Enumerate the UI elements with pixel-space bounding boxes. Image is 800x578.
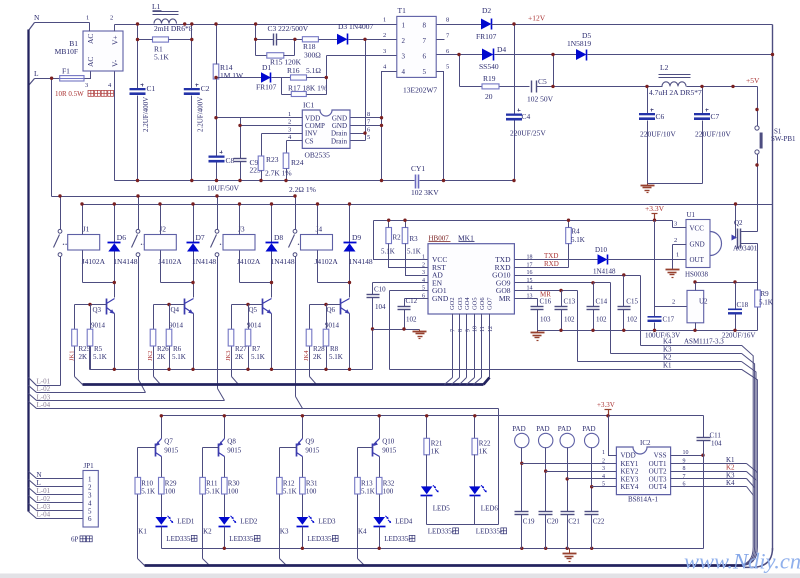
- svg-text:D6: D6: [117, 233, 126, 242]
- svg-text:L2: L2: [660, 63, 669, 72]
- svg-text:1: 1: [402, 22, 406, 30]
- svg-text:+3.3V: +3.3V: [645, 204, 665, 213]
- svg-text:R31: R31: [306, 480, 318, 488]
- svg-text:R2: R2: [393, 234, 402, 242]
- svg-text:3: 3: [674, 221, 677, 228]
- svg-text:+3.3V: +3.3V: [597, 401, 615, 409]
- svg-text:5.1K: 5.1K: [154, 53, 169, 62]
- svg-text:2: 2: [88, 484, 92, 492]
- svg-text:JP1: JP1: [84, 462, 95, 470]
- svg-text:6P: 6P: [71, 536, 79, 544]
- svg-text:1N4148: 1N4148: [192, 257, 216, 266]
- svg-text:7: 7: [423, 37, 427, 45]
- svg-text:J4: J4: [316, 225, 323, 234]
- svg-text:12: 12: [488, 326, 494, 332]
- svg-text:K2: K2: [663, 354, 672, 362]
- svg-text:R32: R32: [383, 480, 395, 488]
- svg-text:MB10F: MB10F: [55, 47, 78, 56]
- svg-text:OB2535: OB2535: [305, 151, 331, 160]
- svg-text:IC2: IC2: [640, 439, 651, 447]
- svg-text:MR: MR: [499, 294, 511, 303]
- svg-text:D1: D1: [262, 63, 271, 72]
- svg-text:C6: C6: [656, 112, 665, 121]
- svg-text:2: 2: [288, 119, 291, 126]
- svg-text:Q5: Q5: [249, 306, 258, 314]
- svg-text:J4102A: J4102A: [158, 257, 182, 266]
- svg-text:2: 2: [110, 15, 113, 22]
- svg-text:KEY4: KEY4: [621, 483, 639, 491]
- svg-text:5.1K: 5.1K: [329, 353, 343, 361]
- svg-text:10: 10: [473, 326, 479, 332]
- svg-text:GO6: GO6: [479, 297, 486, 310]
- svg-text:K2: K2: [726, 464, 735, 472]
- svg-text:R5: R5: [94, 345, 103, 353]
- svg-text:AC: AC: [86, 57, 95, 67]
- svg-text:5.1K: 5.1K: [206, 488, 220, 496]
- svg-text:Q9: Q9: [305, 438, 314, 446]
- svg-text:www.Ndiy.cn: www.Ndiy.cn: [684, 549, 800, 574]
- svg-text:LED335-: LED335-: [428, 528, 455, 536]
- svg-text:LED1: LED1: [177, 518, 195, 526]
- svg-text:C18: C18: [737, 301, 749, 309]
- svg-text:F1: F1: [62, 67, 70, 76]
- svg-text:K1: K1: [726, 456, 735, 464]
- svg-text:V-: V-: [111, 59, 120, 67]
- svg-text:VCC: VCC: [690, 225, 705, 233]
- svg-text:5.1K: 5.1K: [759, 299, 773, 307]
- svg-text:L: L: [34, 69, 39, 78]
- svg-text:4: 4: [402, 68, 406, 76]
- svg-text:R10: R10: [141, 480, 153, 488]
- svg-text:1N4148: 1N4148: [271, 257, 295, 266]
- svg-text:1: 1: [86, 15, 89, 22]
- svg-text:8: 8: [367, 111, 370, 118]
- svg-text:2K: 2K: [157, 353, 166, 361]
- svg-text:J4102A: J4102A: [82, 257, 106, 266]
- svg-text:Q10: Q10: [382, 438, 395, 446]
- svg-text:C5: C5: [538, 77, 547, 86]
- svg-text:R16: R16: [287, 66, 300, 75]
- svg-text:+12V: +12V: [528, 14, 546, 23]
- svg-text:SS540: SS540: [479, 62, 499, 71]
- svg-text:LED335-: LED335-: [384, 535, 411, 543]
- svg-text:FR107: FR107: [256, 83, 277, 92]
- svg-text:102: 102: [564, 316, 575, 324]
- svg-text:JK3: JK3: [225, 351, 232, 361]
- svg-text:ASM1117-3.3: ASM1117-3.3: [684, 338, 724, 346]
- svg-text:L1: L1: [152, 2, 161, 11]
- svg-text:C2: C2: [201, 84, 210, 93]
- svg-text:10UF/50V: 10UF/50V: [207, 184, 240, 193]
- svg-text:N: N: [34, 13, 40, 22]
- svg-text:BS814A-1: BS814A-1: [628, 496, 658, 504]
- svg-text:100UF/6.3V: 100UF/6.3V: [645, 332, 680, 340]
- svg-text:5.1K: 5.1K: [571, 236, 585, 244]
- svg-text:102: 102: [406, 316, 417, 324]
- svg-text:GO4: GO4: [464, 297, 471, 310]
- svg-text:2mH DR6*8: 2mH DR6*8: [154, 24, 193, 33]
- svg-text:5.1K: 5.1K: [251, 353, 265, 361]
- svg-text:3: 3: [288, 126, 291, 133]
- svg-text:Q7: Q7: [164, 438, 173, 446]
- svg-text:KEY3: KEY3: [621, 475, 639, 483]
- svg-text:2K: 2K: [79, 353, 88, 361]
- svg-text:R23: R23: [266, 155, 279, 164]
- svg-text:C8: C8: [226, 156, 235, 165]
- svg-text:C19: C19: [523, 518, 535, 526]
- svg-text:1N4148: 1N4148: [349, 257, 373, 266]
- svg-text:R17 18K 1%: R17 18K 1%: [288, 84, 327, 93]
- svg-text:N: N: [37, 471, 42, 479]
- svg-text:3: 3: [402, 53, 406, 61]
- svg-text:RXD: RXD: [544, 260, 559, 268]
- svg-text:L-03: L-03: [37, 503, 51, 511]
- svg-text:Q3: Q3: [93, 306, 102, 314]
- svg-text:SW-PB1: SW-PB1: [771, 135, 796, 143]
- svg-text:L-02: L-02: [37, 495, 51, 503]
- svg-text:5: 5: [423, 68, 427, 76]
- svg-text:5.1Ω: 5.1Ω: [306, 66, 321, 75]
- svg-text:1: 1: [602, 450, 605, 456]
- svg-text:IC1: IC1: [303, 101, 315, 110]
- svg-text:R13: R13: [361, 480, 373, 488]
- svg-text:9014: 9014: [325, 322, 340, 330]
- svg-text:R6: R6: [173, 345, 182, 353]
- svg-text:OUT3: OUT3: [649, 475, 667, 483]
- svg-text:FR107: FR107: [476, 32, 497, 41]
- svg-text:5: 5: [367, 134, 370, 141]
- svg-text:LED335-: LED335-: [476, 528, 503, 536]
- svg-text:CS: CS: [305, 137, 314, 145]
- svg-text:C14: C14: [596, 298, 608, 306]
- svg-text:R26: R26: [157, 345, 169, 353]
- svg-text:VSS: VSS: [654, 452, 667, 460]
- svg-text:C15: C15: [626, 298, 638, 306]
- svg-text:5.1K: 5.1K: [361, 488, 375, 496]
- svg-text:5: 5: [446, 64, 449, 71]
- svg-text:5.1K: 5.1K: [93, 353, 107, 361]
- svg-text:Q6: Q6: [327, 306, 336, 314]
- svg-text:9014: 9014: [91, 322, 106, 330]
- svg-text:CY1: CY1: [411, 164, 425, 173]
- svg-text:1: 1: [383, 17, 386, 24]
- svg-text:D2: D2: [482, 6, 491, 15]
- svg-text:R11: R11: [206, 480, 218, 488]
- svg-text:C3 222/500V: C3 222/500V: [268, 24, 309, 33]
- svg-text:1K: 1K: [479, 448, 488, 456]
- svg-text:Q4: Q4: [171, 306, 180, 314]
- svg-text:GND: GND: [432, 294, 449, 303]
- svg-text:100: 100: [165, 488, 176, 496]
- svg-text:13E202W7: 13E202W7: [403, 86, 437, 95]
- svg-text:220UF/25V: 220UF/25V: [510, 129, 546, 138]
- svg-text:JK4: JK4: [303, 350, 310, 361]
- svg-text:R21: R21: [431, 440, 443, 448]
- svg-text:K4: K4: [726, 479, 735, 487]
- svg-text:2K: 2K: [313, 353, 322, 361]
- svg-text:20: 20: [485, 92, 493, 101]
- svg-text:3: 3: [85, 82, 88, 89]
- svg-text:K3: K3: [726, 471, 735, 479]
- svg-text:VDD: VDD: [621, 452, 636, 460]
- svg-text:C12: C12: [406, 297, 418, 305]
- svg-text:3: 3: [422, 270, 425, 276]
- svg-text:R4: R4: [572, 228, 581, 236]
- svg-text:1: 1: [88, 476, 92, 484]
- svg-text:K3: K3: [663, 346, 672, 354]
- svg-text:LED5: LED5: [433, 505, 451, 513]
- svg-text:R8: R8: [330, 345, 339, 353]
- svg-text:R29: R29: [165, 480, 177, 488]
- svg-text:K1: K1: [138, 528, 147, 536]
- svg-text:5.1K: 5.1K: [172, 353, 186, 361]
- svg-text:1N5819: 1N5819: [567, 39, 591, 48]
- svg-text:OUT1: OUT1: [649, 460, 667, 468]
- svg-text:103: 103: [540, 316, 551, 324]
- svg-text:2: 2: [674, 237, 677, 244]
- svg-text:J4102A: J4102A: [237, 257, 261, 266]
- svg-text:+5V: +5V: [746, 76, 760, 85]
- svg-text:LED4: LED4: [395, 518, 413, 526]
- svg-text:OUT4: OUT4: [649, 483, 667, 491]
- svg-text:2.2UF/400V: 2.2UF/400V: [197, 97, 205, 132]
- svg-text:104: 104: [375, 303, 386, 311]
- svg-text:JK2: JK2: [147, 351, 154, 361]
- svg-text:K2: K2: [203, 528, 212, 536]
- svg-text:1: 1: [676, 252, 679, 259]
- svg-text:K4: K4: [358, 528, 367, 536]
- svg-text:5: 5: [602, 482, 605, 488]
- svg-text:7: 7: [451, 329, 457, 332]
- svg-text:3: 3: [602, 466, 605, 472]
- svg-text:8: 8: [423, 22, 427, 30]
- svg-text:K3: K3: [280, 528, 289, 536]
- svg-text:3: 3: [383, 48, 386, 55]
- svg-text:2: 2: [422, 262, 425, 268]
- svg-text:102 3KV: 102 3KV: [411, 188, 439, 197]
- svg-text:L-04: L-04: [37, 511, 51, 519]
- svg-text:R19: R19: [483, 74, 496, 83]
- svg-text:OUT2: OUT2: [649, 468, 667, 476]
- svg-text:OUT: OUT: [690, 256, 705, 264]
- svg-text:C4: C4: [522, 112, 531, 121]
- svg-text:GND: GND: [690, 241, 705, 249]
- svg-text:C7: C7: [711, 112, 720, 121]
- svg-text:KEY1: KEY1: [621, 460, 639, 468]
- svg-text:5.1K: 5.1K: [141, 488, 155, 496]
- svg-text:300Ω: 300Ω: [304, 51, 321, 60]
- svg-text:10R 0.5W: 10R 0.5W: [55, 90, 84, 98]
- svg-text:LED335-: LED335-: [166, 535, 193, 543]
- svg-text:220UF/10V: 220UF/10V: [695, 130, 731, 139]
- svg-text:2: 2: [383, 32, 386, 39]
- svg-text:D4: D4: [497, 45, 506, 54]
- svg-text:R7: R7: [252, 345, 261, 353]
- svg-text:L-02: L-02: [37, 385, 51, 393]
- svg-text:8: 8: [446, 17, 449, 24]
- svg-text:2.7K 1%: 2.7K 1%: [265, 169, 292, 178]
- svg-text:R28: R28: [313, 345, 325, 353]
- svg-text:5: 5: [88, 507, 92, 515]
- svg-text:C10: C10: [374, 286, 386, 294]
- svg-text:T1: T1: [398, 6, 407, 15]
- svg-text:K1: K1: [663, 362, 672, 370]
- svg-text:R30: R30: [228, 480, 240, 488]
- svg-text:C13: C13: [564, 298, 576, 306]
- svg-text:1N4148: 1N4148: [113, 257, 137, 266]
- svg-text:4: 4: [602, 474, 605, 480]
- svg-text:J4102A: J4102A: [315, 257, 339, 266]
- svg-text:R27: R27: [235, 345, 247, 353]
- svg-text:1M 1W: 1M 1W: [220, 71, 244, 80]
- svg-text:R25: R25: [79, 345, 91, 353]
- svg-text:LED6: LED6: [481, 505, 499, 513]
- svg-text:9015: 9015: [305, 447, 320, 455]
- svg-text:220UF/10V: 220UF/10V: [640, 130, 676, 139]
- svg-text:AC: AC: [86, 34, 95, 44]
- svg-text:PAD: PAD: [582, 425, 595, 433]
- svg-text:102: 102: [627, 316, 638, 324]
- svg-text:L-01: L-01: [37, 487, 51, 495]
- svg-text:100: 100: [228, 488, 239, 496]
- svg-text:1: 1: [422, 255, 425, 261]
- svg-text:L-03: L-03: [37, 393, 51, 401]
- svg-text:9015: 9015: [227, 447, 242, 455]
- svg-text:104: 104: [711, 440, 722, 448]
- svg-text:C17: C17: [663, 316, 675, 324]
- svg-text:GO2: GO2: [449, 297, 456, 310]
- svg-text:2.2UF/400V: 2.2UF/400V: [142, 97, 150, 132]
- svg-text:1K: 1K: [431, 448, 440, 456]
- svg-text:100: 100: [306, 488, 317, 496]
- svg-text:5.1K: 5.1K: [283, 488, 297, 496]
- svg-text:D7: D7: [196, 233, 205, 242]
- svg-text:R3: R3: [410, 235, 419, 243]
- svg-text:JK1: JK1: [69, 351, 76, 361]
- svg-text:1: 1: [288, 111, 291, 118]
- svg-text:3: 3: [88, 492, 92, 500]
- svg-text:R9: R9: [761, 290, 770, 298]
- svg-text:V+: V+: [111, 35, 120, 45]
- svg-text:Q8: Q8: [227, 438, 236, 446]
- svg-text:9015: 9015: [382, 447, 397, 455]
- svg-text:Q2: Q2: [734, 219, 743, 227]
- svg-text:GO5: GO5: [471, 297, 478, 310]
- svg-text:R12: R12: [283, 480, 295, 488]
- svg-text:KEY2: KEY2: [621, 468, 639, 476]
- svg-text:GO3: GO3: [457, 297, 464, 310]
- svg-text:2: 2: [672, 299, 675, 306]
- svg-text:C16: C16: [540, 298, 552, 306]
- svg-text:PAD: PAD: [512, 425, 525, 433]
- svg-text:L: L: [37, 479, 41, 487]
- svg-text:Drain: Drain: [331, 137, 347, 145]
- svg-text:LED3: LED3: [318, 518, 336, 526]
- svg-text:TXD: TXD: [544, 252, 558, 260]
- svg-text:PAD: PAD: [536, 425, 549, 433]
- svg-text:2: 2: [602, 458, 605, 464]
- svg-text:D3 1N4007: D3 1N4007: [338, 22, 373, 31]
- svg-text:9014: 9014: [247, 322, 262, 330]
- svg-text:LED335-: LED335-: [229, 535, 256, 543]
- svg-text:AO3401: AO3401: [733, 245, 758, 253]
- svg-text:102: 102: [596, 316, 607, 324]
- svg-text:2: 2: [402, 37, 406, 45]
- svg-text:102 50V: 102 50V: [527, 95, 554, 104]
- svg-text:U2: U2: [699, 298, 708, 306]
- svg-text:PAD: PAD: [558, 425, 571, 433]
- svg-text:C11: C11: [710, 432, 722, 440]
- svg-text:2.2Ω 1%: 2.2Ω 1%: [289, 185, 316, 194]
- svg-text:5.1K: 5.1K: [407, 248, 421, 256]
- svg-text:9014: 9014: [169, 322, 184, 330]
- svg-text:D9: D9: [352, 233, 361, 242]
- svg-text:C21: C21: [568, 518, 580, 526]
- svg-text:100: 100: [383, 488, 394, 496]
- svg-text:6: 6: [423, 53, 427, 61]
- svg-text:4.7uH 2A DR5*7: 4.7uH 2A DR5*7: [649, 88, 702, 97]
- svg-text:R24: R24: [291, 158, 304, 167]
- svg-text:J1: J1: [83, 225, 90, 234]
- svg-text:U1: U1: [687, 211, 696, 219]
- svg-text:9015: 9015: [164, 447, 179, 455]
- svg-text:6: 6: [88, 515, 92, 523]
- svg-text:220UF/16V: 220UF/16V: [722, 332, 755, 340]
- svg-text:1N4148: 1N4148: [593, 268, 616, 276]
- svg-text:C1: C1: [147, 84, 156, 93]
- svg-text:D8: D8: [274, 233, 283, 242]
- svg-text:GO7: GO7: [487, 297, 494, 310]
- svg-text:2K: 2K: [235, 353, 244, 361]
- svg-text:LED335-: LED335-: [307, 535, 334, 543]
- svg-text:L-04: L-04: [37, 401, 51, 409]
- svg-text:HS0038: HS0038: [685, 271, 708, 279]
- svg-text:R22: R22: [479, 440, 491, 448]
- svg-text:D10: D10: [595, 246, 608, 254]
- svg-text:C22: C22: [593, 518, 605, 526]
- svg-text:LED2: LED2: [240, 518, 258, 526]
- svg-text:4: 4: [88, 499, 92, 507]
- svg-text:5.1K: 5.1K: [381, 248, 395, 256]
- svg-text:C20: C20: [547, 518, 559, 526]
